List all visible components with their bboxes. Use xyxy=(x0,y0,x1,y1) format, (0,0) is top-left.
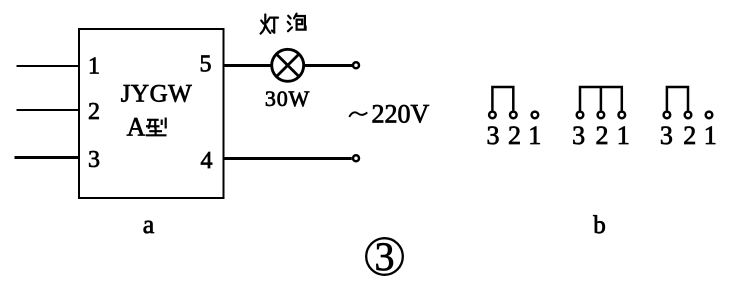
svg-text:a: a xyxy=(143,210,155,239)
b1 terminal 3 xyxy=(489,112,496,119)
b1 terminal 1 xyxy=(532,112,539,119)
svg-text:1: 1 xyxy=(528,121,541,150)
lamp L1 cross xyxy=(277,54,299,76)
svg-text:30W: 30W xyxy=(265,86,310,111)
svg-text:5: 5 xyxy=(200,52,212,78)
灯 fire radical xyxy=(261,21,263,24)
svg-text:4: 4 xyxy=(201,148,213,174)
wire pin4 to terminal xyxy=(223,157,352,160)
b1 terminal 2 xyxy=(510,112,517,119)
wire pin5 to lamp xyxy=(223,64,273,67)
泡 water radical xyxy=(288,16,290,19)
svg-text:3: 3 xyxy=(487,121,500,150)
svg-text:3: 3 xyxy=(660,121,673,150)
b2 terminal 3 xyxy=(577,112,584,119)
relay box U1 JYGW A型 xyxy=(79,29,224,198)
b1 jumper 3-2 xyxy=(492,87,513,111)
b3 terminal 3 xyxy=(664,112,671,119)
terminal T2 bottom xyxy=(353,155,359,161)
wire pin3 left xyxy=(15,156,80,159)
svg-text:1: 1 xyxy=(88,54,100,80)
b2 jumper 3-2-1 xyxy=(580,87,622,111)
灯 ding part xyxy=(270,17,278,19)
box label 型 (drawn glyph) xyxy=(146,118,167,136)
wire pin1 left xyxy=(17,65,80,67)
b2 terminal 1 xyxy=(619,112,626,119)
label 灯泡 (drawn glyphs) xyxy=(261,14,306,34)
wire pin2 left xyxy=(17,109,80,111)
b2 terminal 2 xyxy=(598,112,605,119)
b3 terminal 1 xyxy=(706,112,713,119)
figure number circle 3 xyxy=(366,238,403,275)
svg-text:2: 2 xyxy=(683,121,696,150)
lamp L1 circle xyxy=(272,49,304,81)
svg-text:3: 3 xyxy=(375,234,395,279)
svg-text:2: 2 xyxy=(88,99,100,125)
svg-text:A: A xyxy=(127,113,146,142)
svg-text:b: b xyxy=(593,212,606,239)
b2 jumper middle leg xyxy=(600,87,603,111)
svg-text:3: 3 xyxy=(88,147,100,173)
terminal T1 top xyxy=(353,62,359,68)
wire lamp to terminal xyxy=(303,64,352,67)
svg-text:1: 1 xyxy=(617,121,630,150)
svg-text:1: 1 xyxy=(704,121,717,150)
AC tilde symbol xyxy=(349,112,367,117)
b3 jumper 3-2 xyxy=(667,87,688,111)
泡 bao part xyxy=(294,14,297,19)
svg-text:2: 2 xyxy=(508,121,521,150)
svg-text:220V: 220V xyxy=(372,100,430,129)
svg-text:2: 2 xyxy=(596,121,609,150)
svg-text:JYGW: JYGW xyxy=(121,81,192,108)
svg-text:3: 3 xyxy=(572,121,585,150)
b3 terminal 2 xyxy=(685,112,692,119)
